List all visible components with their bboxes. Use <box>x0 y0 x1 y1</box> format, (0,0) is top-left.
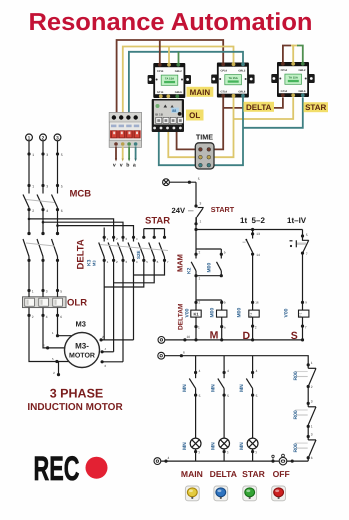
wire OLR out 2 <box>42 308 44 317</box>
svg-text:OFF: OFF <box>273 469 290 479</box>
svg-text:MAIN: MAIN <box>181 469 203 479</box>
svg-text:DELTA: DELTA <box>246 103 272 112</box>
pushbutton green <box>243 486 257 501</box>
svg-text:b: b <box>224 300 226 304</box>
svg-text:MCB: MCB <box>70 189 92 200</box>
svg-text:2: 2 <box>32 209 34 213</box>
svg-text:STAR: STAR <box>305 103 326 112</box>
svg-text:4: 4 <box>46 209 48 213</box>
svg-text:K1: K1 <box>193 311 199 316</box>
wire STAR T4 to DELTA (brown) <box>223 98 283 108</box>
contactor STAR (K2) <box>271 62 314 97</box>
STAR contact pole 2 <box>153 229 155 238</box>
wire tips <box>115 159 117 162</box>
svg-text:MAM: MAM <box>176 254 185 272</box>
wire MCB out v (yellow) <box>122 147 124 160</box>
wire DELTA T5 to timer (yellow) <box>209 98 234 158</box>
label MAIN <box>187 87 214 97</box>
wire STAR bridge mid (yellow) <box>293 46 298 51</box>
svg-text:START: START <box>211 205 235 214</box>
wire motor T2 link <box>102 351 114 353</box>
svg-text:MN: MN <box>239 384 245 392</box>
wire to OLR 2 <box>42 260 44 296</box>
svg-text:GT14: GT14 <box>281 90 288 93</box>
svg-text:MN: MN <box>210 384 216 392</box>
DELTA contact pole 4 <box>132 236 135 239</box>
terminals STAR bottom <box>281 93 305 97</box>
wire MCB out v (brown) <box>115 147 117 160</box>
wire STAR bridge (brown) <box>283 46 291 63</box>
svg-text:4: 4 <box>227 369 229 373</box>
svg-text:6: 6 <box>311 456 313 460</box>
svg-text:DELTA: DELTA <box>76 239 87 269</box>
wire to OLR 1 <box>28 260 30 296</box>
wire OLR2 to motor <box>43 317 65 348</box>
lamp branch 1 lower <box>195 449 197 461</box>
lamp branch 2 wire <box>223 395 225 438</box>
terminals STAR top <box>281 62 305 66</box>
svg-text:3: 3 <box>200 202 202 206</box>
coil D <box>249 310 259 317</box>
wire rung STAR1 to p1 <box>104 260 144 287</box>
svg-text:STAR: STAR <box>242 469 266 479</box>
MCB pole 2 blade <box>37 195 43 208</box>
wire to OLR 3 <box>57 260 59 296</box>
node L1 a <box>27 152 30 155</box>
switch START blade <box>198 207 204 209</box>
timer contact 1t-IV <box>303 240 309 253</box>
MAIN contact pole 3 blade <box>52 239 58 257</box>
bus tap 3 <box>58 226 134 238</box>
rail A <box>165 339 303 341</box>
wire OL to timer (teal) <box>159 132 201 166</box>
supply terminal 3 <box>54 134 61 141</box>
wire start upper <box>195 182 197 206</box>
wire start lower <box>195 218 197 230</box>
wire delta p1 down <box>103 260 105 340</box>
wire drop to MAIN T1 (brown) <box>159 40 161 64</box>
pilot lamp top <box>163 179 170 186</box>
svg-text:14: 14 <box>256 253 260 257</box>
control bus <box>196 229 303 231</box>
coil M aux <box>217 310 227 317</box>
svg-text:4: 4 <box>168 456 170 460</box>
label DELTA <box>244 102 275 112</box>
wire parallel bottom <box>196 275 221 277</box>
svg-text:4: 4 <box>256 369 258 373</box>
wire D branch mid <box>251 253 254 256</box>
svg-text:D: D <box>243 330 251 342</box>
wire supply line 2 upper <box>42 141 44 194</box>
DELTA contact pole 1 <box>103 236 106 239</box>
MCB pole 3 blade <box>52 195 58 208</box>
wire coil S down <box>302 317 304 340</box>
svg-text:2: 2 <box>32 315 34 319</box>
middle groups linkage <box>100 245 168 251</box>
wire supply line 1 upper <box>28 141 30 194</box>
svg-text:6: 6 <box>61 209 63 213</box>
STAR star-point bridge <box>144 228 165 230</box>
contact MAM blade <box>191 262 196 271</box>
lamp branch 1 wire <box>195 395 197 438</box>
rail C left <box>161 460 279 462</box>
timer relay TIME <box>195 143 214 169</box>
wire coil D down <box>252 317 254 340</box>
svg-text:3: 3 <box>56 135 59 141</box>
supply terminal 2 <box>40 134 47 141</box>
svg-text:5: 5 <box>60 289 62 293</box>
MCB pole 1 lower <box>28 208 30 235</box>
svg-text:GRL2: GRL2 <box>238 70 245 73</box>
MAIN contact pole 1 blade <box>23 239 29 257</box>
pushbutton red <box>272 486 286 501</box>
indicator lamp 3 <box>247 438 258 449</box>
terminal rail B <box>158 352 165 359</box>
motor M3 circle <box>65 333 100 368</box>
svg-text:R00: R00 <box>293 410 299 419</box>
wire motor T3 link <box>102 361 123 363</box>
wire MCB out b (green) <box>128 147 130 160</box>
svg-text:88: 88 <box>172 109 176 113</box>
svg-text:1t–IV: 1t–IV <box>287 216 307 225</box>
wire MCB out a (teal) <box>135 147 137 160</box>
svg-text:MN: MN <box>182 442 188 450</box>
wire motor T1 link <box>101 339 133 341</box>
svg-text:GRL2: GRL2 <box>175 70 182 73</box>
overload relay OL block <box>152 99 184 132</box>
terminals DELTA top <box>221 62 245 66</box>
svg-text:3: 3 <box>311 433 313 437</box>
timer contact R1 <box>307 365 309 368</box>
wire L2 top bus (yellow) <box>123 47 234 115</box>
MCB pole 3 lower <box>57 208 59 235</box>
svg-text:M00: M00 <box>207 263 213 273</box>
right branch bottom <box>307 458 309 461</box>
wire D branch upper <box>251 228 254 231</box>
svg-text:GRL6: GRL6 <box>238 90 245 93</box>
svg-text:1: 1 <box>199 277 201 281</box>
svg-text:2: 2 <box>199 300 201 304</box>
svg-text:3: 3 <box>46 289 48 293</box>
indicator lamp 1 <box>190 438 201 449</box>
svg-text:b: b <box>224 251 226 255</box>
pushbutton blue <box>214 486 228 501</box>
node L2 a <box>41 152 44 155</box>
svg-text:5: 5 <box>61 185 63 189</box>
svg-text:GT14: GT14 <box>157 91 164 94</box>
svg-text:3: 3 <box>46 185 48 189</box>
svg-text:1: 1 <box>32 289 34 293</box>
wire rung STAR2 to p2 <box>114 260 155 282</box>
terminal rail A <box>158 337 165 344</box>
svg-text:4: 4 <box>46 315 48 319</box>
bus tap 2 <box>43 222 123 237</box>
MAIN group linkage <box>26 243 55 246</box>
svg-text:V00: V00 <box>283 308 289 317</box>
wire M branch mid <box>195 276 197 310</box>
pushbutton OFF symbol <box>272 454 287 465</box>
wire STAR bridge (green) <box>297 46 303 63</box>
lamp branch 3 wire <box>252 395 254 438</box>
wire S branch upper <box>303 230 309 241</box>
DELTA contact pole 3 <box>121 236 124 239</box>
svg-text:M3-: M3- <box>75 342 89 351</box>
svg-text:2: 2 <box>255 325 257 329</box>
wire OLR1 to motor <box>29 317 71 362</box>
MCB pole 2 lower <box>42 208 44 235</box>
svg-text:S: S <box>291 330 298 342</box>
lamp branch 3 lower <box>252 449 254 461</box>
svg-text:16: 16 <box>255 300 259 304</box>
right branch seg2 <box>307 426 309 436</box>
coil S <box>299 310 309 317</box>
svg-text:1: 1 <box>311 361 313 365</box>
DELTA contact pole 2 <box>112 236 115 239</box>
svg-text:1: 1 <box>311 425 313 429</box>
wire STAR T5 to DELTA (yellow) <box>234 98 294 120</box>
svg-text:7-2: 7-2 <box>249 312 253 317</box>
STAR contact pole 3 <box>164 229 166 238</box>
wire rung STAR3 to p4 <box>134 260 165 275</box>
overload OLR symbol <box>23 297 67 308</box>
wire OLR out 3 <box>57 308 59 317</box>
svg-text:CP14: CP14 <box>281 69 288 72</box>
indicator lamp 2 <box>219 438 230 449</box>
lamp branch 3 upper <box>252 356 254 379</box>
label OL <box>186 110 204 121</box>
wire delta p3 down <box>122 260 124 361</box>
node L3 a <box>56 152 59 155</box>
pushbutton yellow <box>185 486 199 501</box>
svg-text:S2E: S2E <box>136 250 141 259</box>
svg-text:CP14: CP14 <box>221 70 228 73</box>
wire parallel top <box>196 248 221 250</box>
svg-text:4: 4 <box>199 369 201 373</box>
wire OL to timer (yellow) <box>168 132 200 158</box>
svg-text:M00: M00 <box>210 308 216 318</box>
svg-text:6: 6 <box>60 315 62 319</box>
MAIN contact pole 2 blade <box>37 239 43 257</box>
coil K1 timer <box>191 310 201 317</box>
MCB breaker block <box>109 113 141 148</box>
svg-text:R00: R00 <box>293 371 299 380</box>
svg-text:M00: M00 <box>237 308 243 318</box>
svg-text:TA 15A: TA 15A <box>165 77 174 81</box>
svg-text:MOTOR: MOTOR <box>69 353 95 360</box>
svg-text:M3: M3 <box>92 260 97 266</box>
svg-text:5: 5 <box>306 233 308 237</box>
STAR contact pole 1 <box>143 229 145 238</box>
svg-text:MN: MN <box>210 442 216 450</box>
svg-text:M3: M3 <box>76 320 86 329</box>
wire STAR bridge (yellow) <box>291 46 293 63</box>
svg-text:13: 13 <box>256 232 260 236</box>
svg-text:3: 3 <box>311 400 313 404</box>
svg-text:MAIN: MAIN <box>190 88 211 97</box>
wire L3 top bus (teal) <box>129 52 243 114</box>
svg-text:TA 15A: TA 15A <box>289 76 298 80</box>
svg-text:5: 5 <box>61 153 63 157</box>
svg-text:2: 2 <box>199 251 201 255</box>
svg-text:BI 1B: BI 1B <box>155 112 164 116</box>
svg-text:7: 7 <box>306 252 308 256</box>
wire L1 top bus (brown) <box>117 40 224 114</box>
svg-text:5: 5 <box>227 394 229 398</box>
svg-text:1: 1 <box>198 326 200 330</box>
lamp branch 2 lower <box>223 449 225 461</box>
svg-text:10: 10 <box>187 335 191 339</box>
terminals MAIN top <box>158 63 180 67</box>
wire OLR3 to motor <box>58 317 72 336</box>
svg-text:2: 2 <box>42 135 45 141</box>
wire STAR T6 to DELTA (teal) <box>243 98 303 128</box>
contactor MAIN (K1) <box>148 63 191 98</box>
svg-text:MN: MN <box>239 442 245 450</box>
svg-text:K2: K2 <box>187 267 193 274</box>
supply terminal 1 <box>26 134 33 141</box>
timer contact R3 <box>307 437 309 440</box>
node L1 b <box>27 184 30 187</box>
MCB pole 1 blade <box>23 195 29 208</box>
svg-text:GRL6: GRL6 <box>175 91 182 94</box>
MAIN contact pole 1 lower <box>28 257 30 261</box>
wire drop to MAIN T2 (yellow) <box>168 47 170 64</box>
svg-text:1: 1 <box>32 185 34 189</box>
terminal rail C <box>154 458 161 465</box>
wire S branch mid <box>301 252 304 255</box>
svg-text:2: 2 <box>311 385 313 389</box>
lamp branch 1 contact <box>189 379 195 389</box>
svg-text:6: 6 <box>183 351 185 355</box>
logo red circle <box>86 457 108 479</box>
right branch top <box>307 356 309 366</box>
node L2 b <box>41 184 44 187</box>
svg-text:MN: MN <box>182 384 188 392</box>
lamp branch 2 contact <box>218 379 224 389</box>
wire delta p4 down <box>133 260 135 340</box>
svg-text:7-1: 7-1 <box>299 312 303 317</box>
svg-text:GRL2: GRL2 <box>298 69 305 72</box>
node L3 b <box>56 184 59 187</box>
lamp branch 1 upper <box>195 356 197 379</box>
svg-text:OL: OL <box>189 111 200 120</box>
contact M seal blade <box>217 262 222 271</box>
contact K1 blade <box>246 240 252 253</box>
MCB linkage <box>26 200 55 203</box>
svg-text:TA 15A: TA 15A <box>228 76 237 80</box>
svg-text:M: M <box>210 329 219 341</box>
lamp branch 3 contact <box>246 379 252 389</box>
wire delta p2 down <box>113 260 115 351</box>
wire coil link <box>196 299 222 301</box>
svg-text:GT14: GT14 <box>221 90 228 93</box>
svg-text:INDUCTION MOTOR: INDUCTION MOTOR <box>27 402 123 413</box>
timer contact R2 <box>307 403 309 406</box>
svg-text:STAR: STAR <box>145 216 170 227</box>
wire coil T down <box>221 317 223 340</box>
svg-text:a: a <box>224 326 226 330</box>
svg-text:3: 3 <box>46 153 48 157</box>
svg-text:1: 1 <box>32 153 34 157</box>
label STAR <box>304 102 329 112</box>
svg-text:REC: REC <box>34 450 80 488</box>
wire OL to timer (brown) <box>177 132 201 150</box>
wire drop to MAIN T3 (green) <box>178 52 180 64</box>
terminals MAIN bottom <box>159 94 179 98</box>
svg-text:CP14: CP14 <box>157 70 164 73</box>
wire DELTA T4 to timer (brown) <box>209 98 223 150</box>
DELTA pole 1 stub <box>103 228 105 238</box>
wire supply line 3 upper <box>57 141 59 194</box>
svg-text:1: 1 <box>200 219 202 223</box>
terminals DELTA bottom <box>221 94 245 98</box>
svg-text:R00: R00 <box>293 443 299 452</box>
wire OLR out 1 <box>28 308 30 317</box>
svg-text:1t 5–2: 1t 5–2 <box>240 216 265 225</box>
svg-text:TIME: TIME <box>196 133 213 142</box>
right branch seg1 <box>307 387 309 404</box>
svg-text:DELTA: DELTA <box>210 469 237 479</box>
wire DELTA T6 to timer (teal) <box>209 98 243 166</box>
motor stub bottom <box>58 362 60 375</box>
svg-text:V00: V00 <box>185 308 191 317</box>
svg-text:Resonance Automation: Resonance Automation <box>29 9 313 36</box>
svg-text:OLR: OLR <box>67 298 87 309</box>
svg-text:5: 5 <box>199 394 201 398</box>
svg-text:DELTAM: DELTAM <box>177 303 184 330</box>
svg-text:24V: 24V <box>172 206 186 215</box>
svg-text:5: 5 <box>256 394 258 398</box>
svg-text:7: 7 <box>305 325 307 329</box>
MAIN contact pole 2 lower <box>42 257 44 261</box>
MAIN contact pole 3 lower <box>57 257 59 261</box>
lamp branch 2 upper <box>223 356 225 379</box>
rail B <box>165 355 308 357</box>
wire M branch upper <box>195 230 197 259</box>
bus tap 1 <box>29 219 114 237</box>
svg-text:3 PHASE: 3 PHASE <box>50 387 104 401</box>
wire coil M down <box>195 317 197 340</box>
svg-text:5: 5 <box>198 177 200 181</box>
rail C right <box>287 460 308 462</box>
wire lamp to start <box>169 181 196 183</box>
svg-text:1: 1 <box>28 135 31 141</box>
contactor DELTA (K3) <box>211 63 254 98</box>
svg-text:GRL6: GRL6 <box>298 90 305 93</box>
